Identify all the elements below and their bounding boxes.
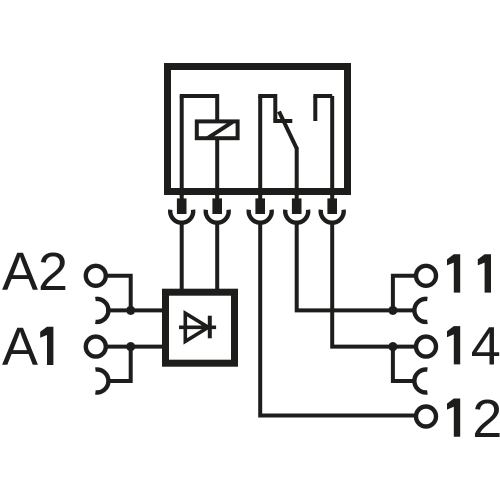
junction A1: [126, 342, 135, 351]
relay coil (rectangle): [197, 121, 238, 138]
label 11: [447, 254, 460, 292]
terminal 14 socket arc: [414, 370, 427, 393]
wire socket 3 drop to terminal 12: [260, 223, 414, 416]
terminal A1 socket arc: [95, 370, 108, 393]
pin 4 blade: [292, 198, 302, 214]
wire A2 row to rectifier: [106, 308, 163, 312]
socket arc pin 2: [206, 210, 229, 223]
svg-text:2: 2: [472, 389, 500, 449]
svg-text:4: 4: [471, 316, 500, 376]
pin 5 blade: [327, 198, 337, 214]
label 14: [447, 326, 460, 364]
socket arc pin 5: [321, 210, 344, 223]
diode D1 through line: [179, 325, 216, 329]
socket arc pin 1: [170, 210, 193, 223]
junction 11: [388, 306, 397, 315]
wire A2 elbow: [108, 276, 131, 311]
movable contact arm: [279, 112, 297, 149]
wire coil feed left (pin 1 riser): [180, 96, 184, 196]
pin 2 blade: [212, 198, 222, 214]
relay body K1 outline: [168, 67, 348, 192]
pin 1 stub: [180, 195, 184, 199]
wire socket 1 to rectifier: [180, 223, 184, 292]
terminal A2 eyelet: [86, 266, 106, 286]
socket arc pin 3: [249, 210, 272, 223]
wire coil top link: [180, 94, 218, 98]
label 12: [447, 399, 460, 437]
wire common contact drop (pin 4): [295, 147, 299, 196]
wire NC contact riser (pin 3): [258, 96, 262, 196]
svg-text:A2: A2: [2, 242, 68, 302]
junction 14: [388, 342, 397, 351]
terminal A1 eyelet: [86, 337, 106, 357]
pin 5 stub: [330, 195, 334, 199]
wire NC contact stub: [273, 94, 277, 120]
wire A1 elbow down: [107, 347, 131, 381]
wire NC contact top link: [258, 94, 275, 98]
terminal 11 socket arc: [414, 299, 427, 322]
junction A2: [126, 306, 135, 315]
wire 14 elbow down: [393, 347, 417, 381]
wire socket 4 drop to terminal 11: [297, 223, 417, 311]
diode D1 triangle: [185, 313, 208, 341]
NC fixed contact bar: [273, 119, 292, 123]
pin 3 blade: [255, 198, 265, 214]
terminal A2 socket arc: [95, 299, 108, 322]
NO fixed contact stub: [313, 96, 317, 121]
wire coil bottom (pin 2 drop): [215, 140, 219, 196]
relay coil diagonal slash: [208, 122, 234, 139]
diode D1 cathode bar: [208, 316, 212, 339]
wire NO contact top link: [313, 94, 332, 98]
pin 3 stub: [258, 195, 262, 199]
wire NO contact riser (pin 5): [330, 96, 334, 196]
wire A1 row to rectifier: [108, 345, 164, 349]
wire socket 2 to rectifier: [215, 223, 219, 292]
wire 11 elbow: [393, 276, 415, 311]
wire coil top drop: [215, 94, 219, 122]
terminal 11 eyelet: [416, 266, 436, 286]
wire socket 5 drop to terminal 14: [332, 223, 415, 347]
pin 1 blade: [177, 198, 187, 214]
terminal 14 eyelet: [416, 337, 436, 357]
pin 4 stub: [295, 195, 299, 199]
svg-text:A: A: [2, 317, 38, 377]
rectifier module box: [166, 292, 235, 363]
socket arc pin 4: [285, 210, 308, 223]
terminal 12 eyelet: [416, 407, 436, 427]
pin 2 stub: [215, 195, 219, 199]
